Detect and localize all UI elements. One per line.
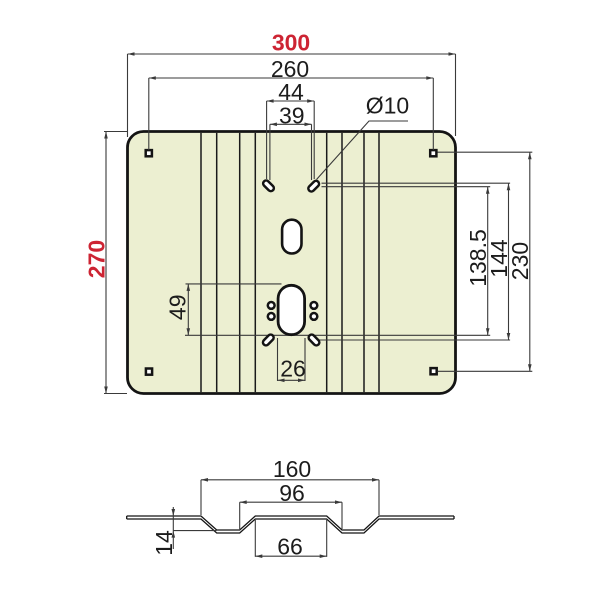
dimension 26 extension right [304,338,306,381]
svg-text:44: 44 [278,79,304,105]
bend line 2 [216,133,218,392]
dimension 44 extension right [313,101,315,179]
slot hole bottom-left (angled) [262,333,275,346]
dimension 39 extension left [269,124,271,180]
dimension 66 extension right [326,520,328,557]
corner square hole bottom-right [431,368,437,374]
dimension 96 extension right [341,502,343,529]
upper oval hole [282,220,301,254]
dimension 260 line [149,77,434,79]
dimension 230 line (right) [529,152,531,371]
svg-text:Ø10: Ø10 [366,93,409,119]
svg-text:96: 96 [279,480,305,506]
profile left end cap [126,516,128,519]
profile section bottom surface [127,519,454,533]
dimension 96 extension left [239,502,241,529]
dimension 138.5 line (right) [487,187,489,336]
svg-text:230: 230 [507,242,533,280]
svg-text:270: 270 [84,240,110,278]
corner square hole bottom-left [146,369,152,375]
dimension 49 line [187,284,189,335]
corner square hole top-left [146,150,152,156]
small circle hole left-lower [268,313,275,320]
big center oval hole [278,285,305,334]
dimension 230 extension top [438,151,533,153]
dimension 160 extension left [200,480,202,515]
svg-text:49: 49 [165,295,191,321]
dimension 66 extension left [254,520,256,557]
profile section top surface [127,516,454,530]
dimension 26 extension left [277,338,279,381]
small circle hole right-lower [311,313,318,320]
dimension 14 reference line [173,530,216,532]
slot hole bottom-right (angled) [307,333,320,346]
bend line 5 [326,133,328,392]
dimension 66 line [255,555,326,557]
bend line 1 [200,133,202,392]
svg-text:160: 160 [273,456,311,482]
dimension 270 extension bottom [104,393,127,395]
small circle hole left-upper [268,302,275,309]
dimension 44 extension left [266,101,268,179]
extension line lower (ref 144 bottom) [318,339,510,341]
dimension 144 line (right) [508,183,510,340]
dimension 26 line [278,379,306,381]
dimension 300 line [128,53,456,55]
extension line upper (ref 138.5 top) [322,186,491,188]
bend line 8 [378,133,380,392]
dimension 160 line [201,479,379,481]
dimension 300 extension left [127,54,129,137]
svg-text:26: 26 [280,355,306,381]
leader line for Ø10 [317,121,409,180]
bend line 4 [254,133,256,392]
dimension 270 line (left) [105,132,107,394]
dimension 160 extension right [378,480,380,515]
profile right end cap [453,516,455,519]
dimension 230 extension bottom [438,370,533,372]
dimension 14 line [172,507,174,549]
extension line lower long (ref 138.5 and 49 bottom) [185,334,490,336]
dimension 39 extension right [311,124,313,180]
plate outline (top view) [128,132,456,394]
small circle hole right-upper [311,302,318,309]
dimension 44 line [267,100,315,102]
dimension 260 extension right [432,78,434,150]
dimension 96 line [240,501,342,503]
dimension 39 line [270,123,312,125]
corner square hole top-right [430,150,436,156]
bend line 7 [363,133,365,392]
svg-text:66: 66 [277,533,303,559]
dimension 300 extension right [455,54,457,136]
bend line 6 [341,133,343,392]
dimension 270 extension top [104,131,127,133]
svg-text:14: 14 [151,530,177,556]
slot hole top-right (angled, Ø10) [307,180,320,193]
dimension 260 extension left [148,78,150,150]
dimension 49 extension top [186,283,282,285]
slot hole top-left (angled) [262,179,275,192]
extension line upper (ref 144 top) [322,182,511,184]
bend line 3 [239,133,241,392]
svg-text:39: 39 [279,103,305,129]
svg-text:300: 300 [272,30,310,56]
